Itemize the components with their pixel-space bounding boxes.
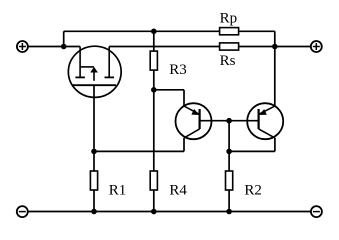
mosfet gate horizontal line [80,66,94,68]
mosfet U1 [68,46,121,97]
resistor Rs [220,43,239,50]
wire Q2 collector vertical [274,138,276,152]
node junction dot collector [226,149,232,155]
wire emitter branch Q1 horizontal [154,89,184,91]
node junction dot base [226,118,232,124]
wire left riser top rail [63,31,65,46]
wire Rs rail [109,46,311,48]
Q2 collector diagonal [259,129,275,138]
wire top rail [64,30,275,32]
Q2 base bar [258,109,260,129]
svg-text:Rs: Rs [220,53,236,69]
wire from plus terminal TL [28,46,81,48]
wire mid column R2 [228,121,230,212]
svg-text:R1: R1 [109,182,127,198]
terminal minus bottom right [311,206,322,217]
node junction dot right [272,44,278,50]
svg-text:R4: R4 [169,182,187,198]
node junction dot R3 top [151,29,157,35]
node junction dot bottom R4 [151,209,157,215]
Q2 emitter arrow [259,109,267,115]
transistor Q2 [247,103,283,139]
mosfet drain lead [79,47,81,78]
node junction dot bottom R2 [226,209,232,215]
resistor Rp [220,28,239,35]
transistor Q1 [176,103,212,139]
node junction dot R3 bottom [151,87,157,93]
mosfet bulk arrow [90,67,98,73]
wire right node riser [274,31,276,106]
wire mosfet source R1 column [93,85,95,211]
node junction dot mosfet source [91,149,97,155]
resistor R2 [226,171,233,190]
mosfet drain contact tick [75,76,85,78]
resistor R3 [150,51,157,70]
wire bottom rail [27,211,311,213]
wire emitter branch Q1 vertical [183,90,185,107]
wire R3 R4 column [153,31,155,211]
wire Q2 collector horizontal [229,150,275,152]
Q1 collector diagonal [184,129,200,138]
mosfet source lead [108,47,110,78]
Q2 emitter diagonal [259,106,275,114]
terminal plus top right [311,41,322,52]
terminal minus bottom left [17,206,28,217]
terminal plus top left [17,41,28,52]
resistor R4 [150,171,157,190]
Q1 emitter diagonal [184,106,199,114]
mosfet source contact tick [105,76,115,78]
resistor R1 [90,171,97,190]
Q1 base bar [199,109,201,129]
wire base row [200,120,259,122]
mosfet channel line [73,84,116,86]
wire Q1 collector vertical [183,138,185,152]
wire collector row horizontal [94,150,184,152]
svg-text:Rp: Rp [220,10,238,26]
mosfet arrow shaft [93,73,95,81]
node junction dot bottom R1 [91,209,97,215]
svg-text:R2: R2 [244,182,262,198]
svg-text:R3: R3 [169,62,187,78]
Q1 emitter arrow [191,109,199,115]
node junction dot left [61,44,67,50]
